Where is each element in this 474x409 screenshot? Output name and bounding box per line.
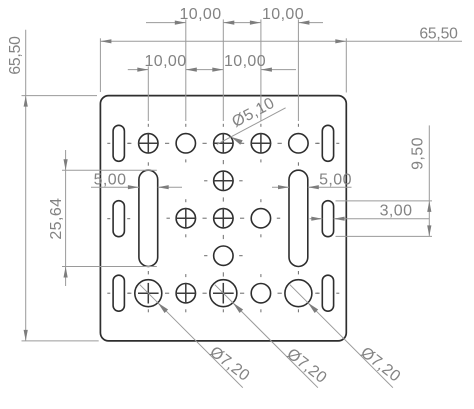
plate outline (65.50 x 65.50 mounting plate) [100,96,346,341]
extension line 25,64 bottom [62,266,157,268]
dimension 65,50 (top overall width) [100,25,462,43]
svg-text:Ø7,20: Ø7,20 [357,344,403,385]
leader Ø7,20 (hole E5 diameter callout) [290,285,404,388]
long slot right (5.00 x 25.64) [289,170,308,266]
dimension 10,00 (top row upper, col4-col5) [223,6,323,25]
extension line 65,50 top right [345,38,347,92]
extension line 25,64 top [62,169,157,171]
svg-text:65,50: 65,50 [7,36,24,75]
dimension 10,00 (top row lower, col3-col4) [186,53,296,72]
svg-text:3,00: 3,00 [380,202,413,219]
centerline dashes (hole pattern center marks) [107,124,339,312]
hole C2 Ø5.10 (crosshair) [176,208,197,229]
long slot left (5.00 x 25.64) [139,170,158,266]
svg-text:10,00: 10,00 [224,53,266,70]
edge slot left middle (3.00 x 9.50) [113,201,124,237]
hole E1 Ø7.20 (crosshair) [135,280,162,307]
hole B3 Ø5.10 (crosshair) [213,171,234,192]
dimension 5,00 (right slot width) [272,171,352,189]
hole A2 Ø5.10 [176,134,195,153]
hole A4 Ø5.10 (crosshair) [251,133,272,154]
svg-text:9,50: 9,50 [410,137,427,170]
hole A1 Ø5.10 (crosshair) [138,133,159,154]
svg-text:25,64: 25,64 [48,198,65,240]
svg-text:Ø7,20: Ø7,20 [206,343,252,384]
dimension 10,00 (top row upper, col2-col3) [146,6,222,25]
extension line 9,50 top [336,200,433,202]
hole E2 Ø5.10 (crosshair) [176,283,197,304]
hole D3 Ø5.10 [214,246,233,265]
svg-text:5,00: 5,00 [94,171,127,188]
extension line col1 [147,66,149,121]
dimension 3,00 (edge slot width) [310,202,430,220]
edge slot right middle (3.00 x 9.50) [322,201,333,237]
hole A5 Ø5.10 [289,134,308,153]
extension line col5 [297,19,299,121]
dimension 5,00 (left slot width) [91,171,182,189]
hole A3 Ø5.10 (crosshair, Ø5,10 callout) [213,133,234,154]
svg-text:Ø7,20: Ø7,20 [283,346,329,387]
svg-text:10,00: 10,00 [262,6,304,23]
extension line col4 [260,19,262,121]
leader Ø7,20 (hole E1 diameter callout) [140,285,253,388]
leader Ø7,20 (hole E3 diameter callout) [215,285,330,388]
hole C4 Ø5.10 [251,209,270,228]
dimension 10,00 (top row lower, col1-col2) [128,53,187,72]
hole E4 Ø5.10 [251,284,270,303]
edge slot right bottom (3.00 x 9.50) [322,275,333,311]
extension line 65,50 top left [99,38,101,92]
svg-text:10,00: 10,00 [144,53,186,70]
hole E3 Ø7.20 (crosshair) [210,280,237,307]
dimension 25,64 (long slot length) [48,150,68,286]
svg-text:10,00: 10,00 [179,6,221,23]
svg-text:65,50: 65,50 [419,25,458,42]
extension line col3 [222,19,224,121]
svg-text:Ø5,10: Ø5,10 [229,95,277,131]
extension line 9,50 bottom [336,235,433,237]
dimension 9,50 (edge slot length) [410,125,432,236]
leader Ø5,10 (hole A3 diameter callout) [217,95,286,145]
edge slot left top (3.00 x 9.50) [113,125,124,161]
hole E5 Ø7.20 [285,280,312,307]
edge slot left bottom (3.00 x 9.50) [113,275,124,311]
extension line 65,50 left top [22,95,98,97]
svg-text:5,00: 5,00 [319,171,352,188]
extension line col2 [185,19,187,121]
extension line 65,50 left bottom [22,340,99,342]
dimension 65,50 (left overall height) [7,30,28,341]
hole C3 Ø5.10 (crosshair) [213,208,234,229]
edge slot right top (3.00 x 9.50) [322,125,333,161]
